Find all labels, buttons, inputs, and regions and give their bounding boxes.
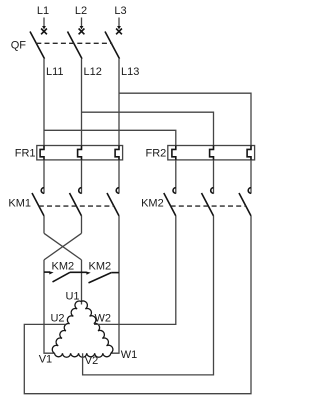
wire L12 [81, 59, 83, 146]
KM1 pole 3 fixed contact hook [116, 188, 119, 194]
thermal relay FR2 box [168, 146, 255, 160]
wire branch L12 to FR2 pole 2 [82, 112, 214, 145]
svg-text:V1: V1 [39, 354, 52, 366]
KM1 pole 2 fixed contact hook [79, 188, 82, 194]
svg-text:L2: L2 [75, 5, 87, 17]
KM2 pole 3 blade [239, 193, 251, 216]
terminal L1 x-mark [41, 29, 47, 35]
star contact a blade [53, 272, 71, 282]
svg-text:U1: U1 [65, 290, 79, 302]
motor winding U1-U2 left side [52, 301, 81, 353]
thermal relay FR1 box [37, 146, 123, 160]
wire branch L13 to FR2 pole 3 [119, 93, 251, 145]
terminal L1 arrow [42, 18, 46, 30]
wire KM1 pole 3 to W1 [111, 216, 119, 353]
svg-text:L3: L3 [114, 5, 126, 17]
terminal L2 x-mark [79, 29, 85, 35]
FR2 heater element pole 1 [172, 146, 176, 160]
wire FR2 pole 1 to KM2 contact [175, 160, 177, 194]
KM2 mechanical linkage dashed [171, 205, 246, 207]
FR2 heater element pole 2 [210, 146, 214, 160]
wire FR1 pole 2 to KM1 contact [81, 160, 83, 194]
FR1 heater element pole 3 [115, 146, 119, 160]
svg-text:L13: L13 [121, 66, 139, 78]
star contact b arrowhead [86, 272, 91, 275]
FR1 heater element pole 2 [78, 146, 82, 160]
svg-text:W2: W2 [95, 313, 112, 325]
KM2 pole 2 fixed contact hook [211, 188, 214, 194]
wire KM2 pole 1 to W2 [94, 216, 176, 325]
wire L13 [118, 59, 120, 146]
svg-text:QF: QF [11, 40, 27, 52]
KM2 pole 3 fixed contact hook [248, 188, 251, 194]
KM2 pole 1 fixed contact hook [173, 188, 176, 194]
wire to V1 [44, 260, 55, 353]
KM1 pole 1 fixed contact hook [41, 188, 44, 194]
svg-text:FR1: FR1 [15, 148, 36, 160]
wire L11 [43, 59, 45, 146]
wire FR1 pole 3 to KM1 contact [118, 160, 120, 194]
wire crossover phase swap b [44, 233, 82, 260]
KM1 pole 1 blade [32, 193, 44, 216]
terminal L3 arrow [117, 18, 121, 30]
FR2 heater element pole 3 [247, 146, 251, 160]
KM1 pole 2 blade [70, 193, 82, 216]
wire branch L11 to FR2 pole 1 [44, 130, 176, 145]
wire FR2 pole 2 to KM2 contact [213, 160, 215, 194]
star contact b blade [89, 273, 112, 283]
svg-text:L12: L12 [84, 66, 102, 78]
star link wire a-b [70, 271, 87, 273]
KM1 pole 3 blade [107, 193, 119, 216]
KM2 pole 1 blade [164, 193, 176, 216]
QF pole 1 blade [30, 32, 45, 59]
KM2 pole 2 blade [202, 193, 214, 216]
svg-text:FR2: FR2 [146, 148, 167, 160]
motor winding W2-W1 right side [81, 301, 113, 353]
wire FR1 pole 1 to KM1 contact [43, 160, 45, 194]
wire KM1 pole 2 down [81, 216, 83, 233]
wire KM2 pole 3 to U2 [24, 216, 251, 394]
star contact a fixed stub [44, 271, 50, 273]
terminal L2 arrow [80, 18, 84, 30]
svg-text:L1: L1 [37, 5, 49, 17]
svg-text:V2: V2 [85, 355, 98, 367]
svg-text:KM2: KM2 [89, 260, 112, 272]
QF mechanical linkage dashed [36, 42, 112, 44]
KM1 mechanical linkage dashed [39, 205, 114, 207]
svg-text:L11: L11 [46, 66, 64, 78]
wire KM2 pole 2 to V2 [83, 216, 214, 375]
motor winding V1-V2 bottom side [55, 353, 111, 357]
svg-text:KM2: KM2 [141, 198, 164, 210]
svg-text:KM2: KM2 [52, 260, 75, 272]
QF pole 3 blade [105, 32, 120, 59]
svg-text:W1: W1 [121, 349, 138, 361]
wire KM1 pole 1 down [43, 216, 45, 233]
star link wire b to W1 wire [111, 272, 119, 274]
FR1 heater element pole 1 [40, 146, 44, 160]
svg-text:U2: U2 [50, 313, 64, 325]
star contact a arrowhead [49, 271, 54, 274]
wire crossover phase swap a [44, 233, 82, 260]
svg-text:KM1: KM1 [8, 198, 31, 210]
terminal L3 x-mark [116, 29, 122, 35]
QF pole 2 blade [68, 32, 83, 59]
wire to U1 apex [81, 260, 83, 305]
wire FR2 pole 3 to KM2 contact [250, 160, 252, 194]
